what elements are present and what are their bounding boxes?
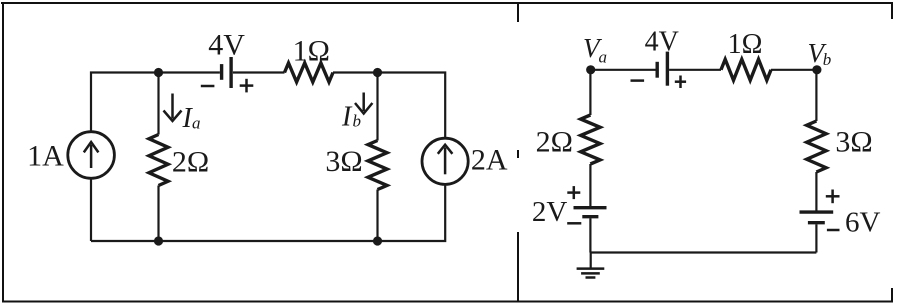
wire node to R2 <box>157 73 159 135</box>
ground stem <box>590 253 592 269</box>
resistor R2 2ohm <box>149 135 168 186</box>
svg-text:4V: 4V <box>208 28 245 61</box>
node dot bottom left branch <box>154 236 163 245</box>
current source I1 1A circle <box>68 132 115 179</box>
minus sign of V3 <box>567 222 581 225</box>
plus sign of V4 <box>826 190 840 204</box>
plus sign of V3 <box>567 186 580 199</box>
svg-text:4V: 4V <box>645 27 679 58</box>
wire bottom-left up to I1 <box>90 178 92 241</box>
minus sign of V4 <box>827 229 840 232</box>
node Va dot <box>586 65 595 74</box>
battery V4 6V short negative plate <box>808 221 825 224</box>
resistor R4 1ohm right circuit <box>721 59 771 80</box>
svg-text:I: I <box>341 101 353 132</box>
wire Vb down to R6 <box>815 70 817 121</box>
wire V4 to bottom wire <box>815 224 817 252</box>
battery V2 4V short negative plate <box>656 62 659 78</box>
label Vb <box>808 38 832 69</box>
arrow inside I2 <box>438 145 453 175</box>
label Va <box>583 33 607 67</box>
svg-text:2V: 2V <box>532 196 568 228</box>
svg-text:a: a <box>599 48 608 67</box>
current arrow Ib <box>355 93 372 114</box>
minus sign of V2 <box>631 79 645 82</box>
battery V3 2V long positive plate <box>574 206 607 209</box>
node dot top left branch <box>154 68 163 77</box>
wire R4 to node Vb <box>771 69 817 71</box>
wire Va to battery V2 <box>591 69 656 71</box>
battery V4 6V long positive plate <box>800 210 834 213</box>
battery V2 4V long positive plate <box>666 52 669 86</box>
wire battery V2 to R4 <box>669 69 721 71</box>
battery V1 4V short negative plate <box>220 64 223 80</box>
wire battery to R1 <box>233 71 285 73</box>
wire R2 to bottom node <box>157 186 159 242</box>
resistor R1 1ohm <box>285 63 334 82</box>
svg-text:6V: 6V <box>845 207 881 239</box>
minus sign of V1 <box>201 85 215 88</box>
resistor R5 2ohm right circuit <box>581 115 600 164</box>
node dot bottom right branch <box>373 236 382 245</box>
wire node to R3 <box>376 73 378 141</box>
battery V1 4V long positive plate <box>229 57 232 88</box>
svg-text:1Ω: 1Ω <box>293 35 330 68</box>
wire top-left of left loop <box>91 73 220 132</box>
svg-text:2Ω: 2Ω <box>172 146 209 179</box>
arrow inside I1 <box>84 142 99 168</box>
label Ia <box>182 103 201 134</box>
label Ib <box>341 101 361 132</box>
ground bar 1 <box>577 267 605 270</box>
svg-text:2A: 2A <box>471 143 508 176</box>
wire R6 to battery V4 <box>815 172 817 211</box>
svg-text:1Ω: 1Ω <box>728 29 763 60</box>
ground bar 2 <box>581 272 600 275</box>
ground bar 3 <box>586 276 596 279</box>
node dot top right branch <box>373 68 382 77</box>
bottom wire right circuit <box>590 251 816 253</box>
wire R5 to battery V3 <box>589 164 591 206</box>
battery V3 2V short negative plate <box>582 215 598 218</box>
svg-text:3Ω: 3Ω <box>835 126 872 159</box>
svg-text:1A: 1A <box>27 140 64 173</box>
wire R1 to top-right corner <box>333 73 445 139</box>
resistor R6 3ohm right circuit <box>807 121 826 172</box>
svg-text:2Ω: 2Ω <box>536 126 573 159</box>
current arrow Ia <box>164 94 182 122</box>
resistor R3 3ohm <box>368 141 387 190</box>
svg-text:3Ω: 3Ω <box>325 145 362 178</box>
wire I2 to bottom-right corner <box>91 184 445 241</box>
svg-text:a: a <box>192 114 201 133</box>
current source I2 2A circle <box>422 138 468 184</box>
wire Va down to R5 <box>589 70 591 115</box>
plus sign of V2 <box>675 76 686 89</box>
wire R3 to bottom node <box>376 190 378 242</box>
wire V3 to bottom wire <box>589 218 591 252</box>
svg-text:b: b <box>353 112 362 131</box>
node Vb dot <box>812 65 821 74</box>
plus sign of V1 <box>240 79 254 93</box>
svg-text:b: b <box>823 50 832 69</box>
